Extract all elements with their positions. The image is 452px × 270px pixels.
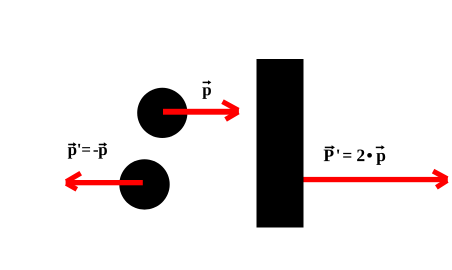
momentum arrow p (head) [223,102,239,120]
label p over-arrow (right side) [376,145,385,149]
label P' over-arrow [325,145,335,149]
wall [257,59,304,228]
momentum arrow p' (shaft) [68,180,143,185]
label p over-arrow [203,80,212,84]
label P' = 2 . p [324,150,386,165]
momentum arrow P'=2p (shaft) [304,177,446,182]
momentum arrow p' (head) [66,173,81,189]
ball (incoming, upper) [137,88,187,138]
momentum arrow p (shaft) [163,109,238,115]
ball (rebounding, lower) [119,159,169,209]
label p' over-arrow [68,142,76,146]
label p [202,87,211,99]
label p' = -p [68,144,107,159]
momentum arrow P'=2p (head) [433,171,447,187]
label -p over-arrow [99,142,107,146]
